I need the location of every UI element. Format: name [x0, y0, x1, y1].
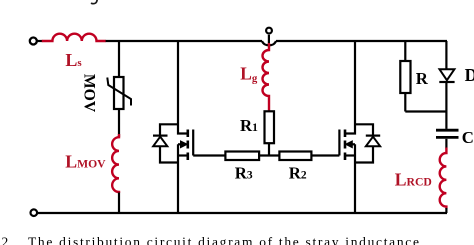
resistor R2 — [279, 152, 311, 161]
svg-text:C: C — [462, 128, 474, 147]
wire R clamp upper — [404, 41, 406, 61]
svg-text:Lg: Lg — [240, 64, 258, 85]
svg-text:The distribution circuit diagr: The distribution circuit diagram of the … — [28, 234, 421, 245]
inductor Ls — [42, 34, 106, 41]
wire MOV branch upper — [118, 41, 120, 77]
svg-text:2: 2 — [2, 234, 9, 245]
svg-text:MOV: MOV — [81, 74, 98, 113]
transistor Q2 channel — [344, 130, 347, 138]
transistor Q2 body arrow — [352, 143, 355, 145]
inductor LMOV — [112, 134, 119, 193]
svg-text:D: D — [465, 65, 474, 85]
wire LRCD to bottom — [445, 208, 447, 213]
resistor R3 — [225, 152, 259, 161]
svg-text:LMOV: LMOV — [65, 151, 106, 171]
wire D lower — [445, 82, 447, 129]
wire Q1 source rail — [177, 144, 179, 213]
svg-text:LRCD: LRCD — [395, 169, 432, 189]
wire Q2 source rail — [354, 144, 356, 213]
wire bottom bus — [37, 212, 447, 214]
wire D upper — [445, 41, 447, 69]
wire Q1 drain rail — [178, 41, 187, 134]
wire MOV to LMOV — [118, 109, 120, 137]
wire Q2 source stub — [346, 154, 355, 156]
inductor Lg — [263, 43, 270, 111]
wire top bus right of gate terminal — [276, 40, 447, 42]
svg-text:R: R — [416, 69, 429, 88]
wire R2 to Q2 gate — [311, 154, 339, 156]
wire Q1 gate lead — [193, 154, 225, 156]
wire C to LRCD — [445, 139, 447, 149]
svg-text:Ls: Ls — [65, 50, 82, 70]
capacitor C — [436, 129, 459, 132]
inductor LRCD — [440, 148, 447, 209]
stray glyph fragment top edge — [92, 0, 98, 4]
wire top bus — [105, 40, 262, 42]
wire LMOV to bottom — [118, 193, 120, 214]
wire top bus left stub — [37, 40, 43, 42]
wire Q1 source stub — [178, 154, 187, 156]
terminal input left top — [30, 38, 37, 45]
varistor MOV — [114, 77, 124, 109]
resistor R — [400, 61, 410, 93]
wire gate terminal stub — [268, 35, 270, 46]
transistor Q2 gate bar — [338, 130, 340, 156]
transistor Q1 channel — [187, 130, 190, 138]
svg-text:R2: R2 — [289, 164, 307, 183]
diode D1 body (Q1) — [160, 124, 178, 135]
node gate-terminal dip — [262, 41, 276, 45]
terminal gate top — [266, 28, 272, 34]
diode D — [440, 69, 455, 80]
diode D2 body (Q2) — [355, 124, 373, 135]
wire R1 to gate bus — [268, 143, 270, 155]
wire R lower — [404, 93, 406, 112]
terminal input left bottom — [31, 209, 38, 216]
svg-text:R3: R3 — [235, 164, 253, 183]
resistor R1 — [265, 111, 275, 143]
svg-text:R1: R1 — [240, 116, 258, 135]
wire R3 to R2 — [259, 154, 279, 156]
transistor Q1 body arrow — [178, 143, 181, 145]
wire clamp bottom link — [405, 110, 446, 112]
transistor Q1 gate bar — [192, 130, 194, 156]
wire Q2 drain rail — [346, 41, 355, 134]
